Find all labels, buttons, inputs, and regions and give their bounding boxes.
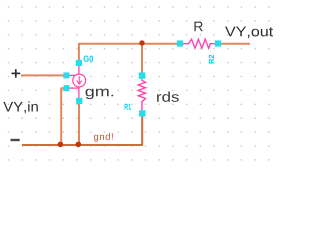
value label gm. (86, 89, 114, 99)
wire output (221, 43, 250, 45)
vccs G0 body (66, 63, 85, 101)
wire ground net (22, 116, 142, 145)
plus terminal (12, 69, 21, 78)
resistor R1 pin 2 (bottom) (139, 110, 145, 116)
junction on gnd net (minus branch) (58, 142, 64, 148)
junction at node between gm output, rds and R (139, 40, 144, 45)
wire plus input (21, 74, 64, 76)
value label rds (157, 92, 179, 102)
net label gnd! (94, 133, 113, 142)
vccs G0 pin 4 (output bottom) (76, 98, 82, 104)
resistor R1 body (value rds) (138, 79, 145, 110)
junction on gnd net (gm bottom) (76, 142, 82, 148)
vccs G0 pin 2 (control +) (63, 72, 69, 78)
refdes R1 (125, 104, 131, 110)
vccs G0 pin 1 (output top) (76, 60, 82, 66)
resistor R2 pin 2 (right) (215, 40, 221, 46)
vccs G0 pin 3 (control -) (64, 85, 70, 91)
node label VY,in (3, 101, 38, 113)
refdes G0 (84, 56, 94, 62)
wire top net (79, 44, 177, 61)
resistor R2 body (value R) (183, 39, 215, 48)
value label R (194, 22, 202, 32)
wire rds top branch (141, 44, 143, 73)
node label VY,out (225, 27, 273, 38)
resistor R2 pin 1 (left) (177, 40, 183, 46)
resistor R1 pin 1 (top) (139, 72, 145, 78)
minus terminal (11, 139, 20, 141)
wire gm bottom (78, 104, 80, 145)
refdes R2 (rotated) (209, 55, 214, 64)
wire minus input down (61, 88, 64, 144)
